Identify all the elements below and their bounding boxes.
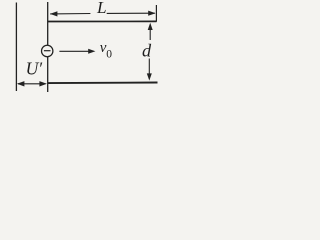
electron minus sign — [44, 50, 51, 52]
dimension arrow U' right arrowhead — [39, 81, 47, 86]
dimension arrow L shaft right segment — [107, 12, 155, 14]
svg-text:L: L — [96, 0, 107, 17]
dimension arrow L left arrowhead — [50, 11, 57, 16]
background — [0, 0, 162, 94]
right accelerating plate (lower segment below electron) — [47, 57, 49, 92]
velocity arrow v0 shaft — [59, 50, 89, 52]
dimension arrow d upper shaft — [149, 25, 151, 41]
electron circle — [42, 45, 53, 56]
dimension arrow L right arrowhead — [148, 11, 155, 16]
right accelerating plate (upper segment above electron) — [47, 2, 49, 45]
svg-text:0: 0 — [106, 48, 112, 60]
right boundary tick of L dimension — [155, 5, 157, 22]
velocity arrow v0 arrowhead — [88, 49, 95, 54]
bottom deflection plate — [48, 82, 158, 85]
dimension arrow U' left arrowhead — [17, 81, 25, 86]
dimension arrow L shaft left segment — [50, 13, 90, 15]
dimension arrow d lower shaft — [148, 59, 150, 76]
left accelerating plate — [15, 3, 17, 92]
dimension arrow U' shaft — [18, 83, 46, 85]
top deflection plate — [48, 20, 157, 22]
svg-text:d: d — [142, 40, 152, 60]
dimension arrow d lower arrowhead (points down) — [147, 73, 152, 80]
svg-text:U′: U′ — [26, 59, 44, 79]
dimension arrow d upper arrowhead (points up) — [148, 23, 153, 30]
